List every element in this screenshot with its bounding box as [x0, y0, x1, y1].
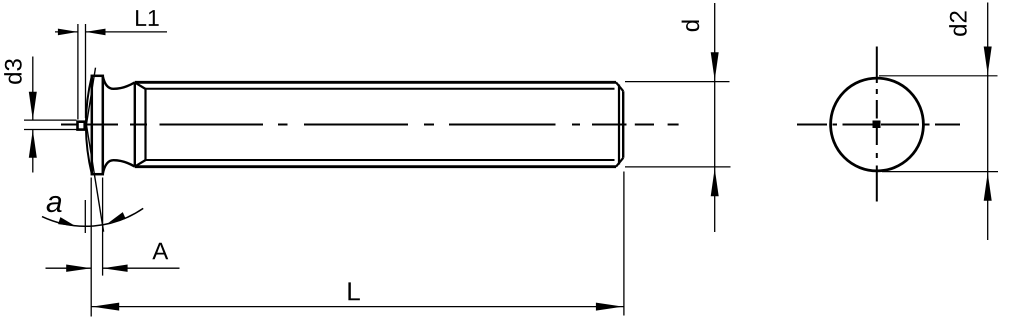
- circle centerline horizontal: [797, 124, 960, 126]
- label L: [348, 282, 359, 300]
- dim L1 line left: [55, 31, 78, 33]
- dim d3 extension line bottom: [24, 129, 77, 131]
- label d3: [4, 59, 22, 84]
- angle arrow left: [58, 217, 77, 227]
- flange: [92, 76, 103, 174]
- label d2: [949, 11, 967, 35]
- dim L1 line right: [86, 31, 168, 33]
- angle arrow right: [106, 212, 125, 224]
- dim d2 extension line bottom: [882, 171, 998, 173]
- thread runout vertical V1: [134, 82, 136, 166]
- dim A line right: [103, 267, 180, 269]
- neck top: [103, 76, 135, 89]
- dim d3 line lower: [32, 130, 34, 173]
- circle centerline vertical: [876, 47, 878, 202]
- dim A extension line flange back: [102, 178, 104, 276]
- label a: [47, 196, 62, 212]
- label d: [682, 20, 700, 31]
- angle dim arc: [42, 208, 143, 226]
- dim d3 line upper: [32, 57, 34, 120]
- neck bottom: [103, 160, 135, 174]
- dim A extension line weld plane: [90, 178, 92, 317]
- centerline stud axis: [61, 124, 679, 126]
- thread end chamfer bottom: [616, 158, 623, 167]
- thread minor dia top: [146, 88, 615, 90]
- dim d3 extension line top: [24, 119, 77, 121]
- end face V4: [622, 91, 624, 158]
- dim d extension line top: [625, 81, 730, 83]
- thread major dia bottom: [135, 165, 616, 168]
- dim L1 extension line tip end: [77, 24, 79, 120]
- extension tip base to arc: [84, 200, 86, 233]
- label A: [152, 243, 168, 260]
- dim L1 extension line tip base: [85, 24, 87, 118]
- dim L extension line right: [623, 172, 625, 316]
- thread major dia top: [135, 81, 616, 84]
- dim d2 line: [987, 3, 989, 241]
- thread start chamfer top: [135, 82, 146, 89]
- circle center dot: [873, 121, 881, 129]
- thread end vertical V3: [618, 85, 620, 165]
- dim L line: [91, 306, 624, 308]
- dim d2 extension line top: [879, 75, 998, 77]
- thread start chamfer bottom: [135, 160, 146, 167]
- weld tip: [78, 122, 85, 130]
- head face arc: [86, 76, 92, 174]
- dim A line left: [46, 267, 92, 269]
- thread start vertical V2: [144, 89, 146, 160]
- thread end chamfer top: [616, 82, 623, 91]
- thread minor dia bottom: [146, 159, 615, 161]
- dim d line: [714, 3, 716, 232]
- angle construction line (cone face extended): [86, 68, 103, 232]
- end view circle (flange): [831, 78, 924, 171]
- dim d extension line bottom: [625, 166, 731, 168]
- label L1: [136, 10, 159, 26]
